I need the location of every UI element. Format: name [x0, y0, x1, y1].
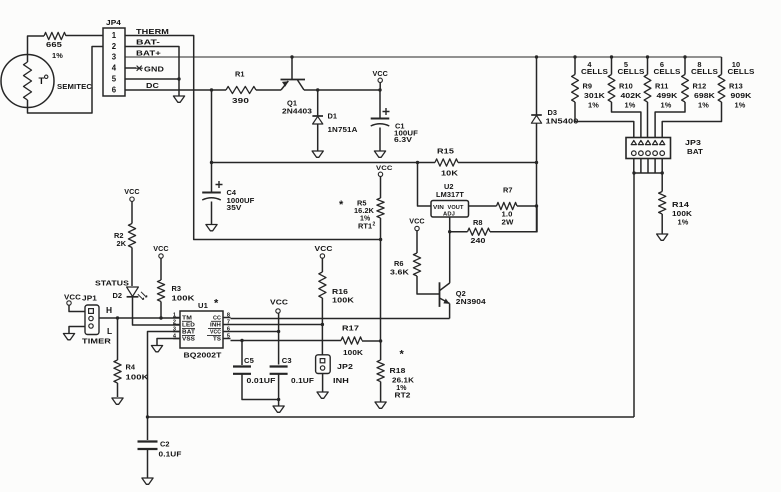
svg-text:2N4403: 2N4403 [282, 107, 312, 116]
svg-text:5: 5 [227, 333, 230, 339]
capacitor C2 0.1UF [138, 417, 182, 459]
svg-text:301K: 301K [584, 91, 606, 100]
resistor R2 2K [114, 201, 136, 247]
svg-text:R8: R8 [473, 218, 483, 227]
power VCC (R3 top) [153, 244, 168, 258]
power VCC (U1 VCC pin) [270, 298, 289, 314]
svg-text:VCC: VCC [64, 293, 81, 302]
svg-text:CC: CC [213, 316, 221, 322]
svg-text:16.2K: 16.2K [354, 206, 375, 215]
svg-text:*: * [214, 298, 219, 310]
resistor R10 402K 1% (5 cells) [608, 55, 645, 109]
wire bottom rail (BAT sense) [146, 415, 634, 418]
wire R11 to JP3 pin3 [647, 102, 649, 138]
thermistor T SEMITEC temperature sensor [1, 55, 92, 108]
svg-text:JP3: JP3 [685, 138, 701, 147]
wire R1 to Q1 emitter [256, 89, 281, 91]
svg-text:0.1UF: 0.1UF [291, 376, 314, 385]
wire U2 VOUT to R7 [469, 205, 497, 207]
wire Q1 collector to VCC node [304, 88, 382, 91]
connector JP4 [103, 18, 125, 96]
ground at JP4 BAT- [173, 96, 184, 102]
wire BAT- net (JP4 pin2 to ground) [125, 38, 179, 97]
svg-text:LM317T: LM317T [436, 190, 464, 199]
resistor R3 100K [157, 258, 195, 302]
svg-text:0.01UF: 0.01UF [247, 376, 276, 385]
svg-text:6: 6 [112, 86, 117, 95]
svg-text:6: 6 [227, 326, 230, 332]
resistor R4 100K [114, 318, 149, 383]
wire VCC drop to C3 [278, 313, 280, 364]
svg-text:2K: 2K [117, 239, 127, 248]
resistor R11 499K 1% (6 cells) [644, 55, 681, 109]
wire JP3 to bottom rail (right vertical) [633, 173, 635, 417]
wire DC to C4 and VIN rail [210, 88, 435, 164]
svg-text:1%: 1% [735, 101, 746, 110]
svg-text:698K: 698K [694, 91, 716, 100]
svg-text:2N3904: 2N3904 [456, 297, 487, 306]
power VCC (R2 top) [124, 187, 139, 201]
svg-text:L: L [107, 326, 112, 336]
svg-text:1%: 1% [52, 51, 63, 60]
svg-text:INH: INH [210, 323, 221, 329]
wire U1 VSS to ground [157, 339, 180, 346]
svg-text:VOUT: VOUT [448, 205, 464, 211]
svg-text:ADJ: ADJ [443, 212, 455, 218]
wire C5 bottom to ground run [242, 374, 280, 401]
connector JP3 BAT [626, 138, 703, 174]
svg-text:SEMITEC: SEMITEC [57, 82, 92, 91]
wire R12 to JP3 pin4 [655, 102, 685, 138]
svg-text:THERM: THERM [136, 27, 169, 36]
svg-text:BAT-: BAT- [136, 38, 160, 47]
wire CC line (U1 pin8 to Q2 emitter) [231, 318, 450, 320]
svg-text:665: 665 [46, 40, 62, 49]
wire INH to JP2 [321, 325, 323, 355]
svg-text:*: * [400, 349, 405, 361]
wire R10 to JP3 pin2 [612, 102, 641, 138]
svg-text:VCC: VCC [124, 187, 139, 196]
svg-text:INH: INH [333, 376, 349, 385]
svg-text:7: 7 [227, 319, 230, 325]
wire R3 to TM line [159, 302, 162, 320]
diode D3 1N5400 [531, 55, 578, 231]
LED D2 STATUS [95, 279, 147, 301]
svg-text:1%: 1% [678, 218, 689, 227]
resistor R15 10K [435, 147, 458, 178]
svg-text:499K: 499K [657, 91, 679, 100]
svg-text:VCC: VCC [409, 217, 424, 226]
svg-text:R9: R9 [583, 82, 593, 91]
svg-text:R11: R11 [655, 82, 668, 91]
resistor R18 26.1K 1% RT2 [377, 341, 415, 402]
wire JP3 bottom bus [632, 171, 664, 174]
ground below C1 [374, 151, 385, 157]
ground below R4 [112, 398, 123, 404]
ground at JP1 [63, 334, 74, 340]
svg-text:VSS: VSS [182, 337, 195, 343]
capacitor C3 0.1UF [270, 356, 315, 385]
svg-text:BAT+: BAT+ [136, 49, 162, 58]
wire thermistor bottom to JP4 pin2 [28, 47, 104, 114]
ground below C3/C5 [273, 406, 284, 412]
svg-text:BAT: BAT [687, 147, 703, 156]
svg-text:5: 5 [624, 60, 628, 69]
svg-text:6: 6 [660, 60, 664, 69]
connector JP2 INH [316, 355, 353, 385]
svg-text:1%: 1% [698, 101, 709, 110]
svg-text:1%: 1% [625, 101, 636, 110]
power VCC (R6 top) [409, 217, 424, 231]
wire U1 BAT pin down to bottom rail [148, 332, 181, 418]
ground at U1 VSS [151, 346, 162, 352]
svg-text:BQ2002T: BQ2002T [184, 351, 222, 360]
wire TS line (U1 pin5 to R17) [231, 339, 342, 342]
resistor R17 100K [341, 324, 381, 358]
svg-text:1: 1 [173, 312, 176, 318]
svg-text:VCC: VCC [210, 330, 221, 336]
svg-text:402K: 402K [621, 91, 643, 100]
svg-text:1%: 1% [588, 101, 599, 110]
wire R15 to D3 anode node [458, 161, 538, 164]
svg-text:R10: R10 [619, 82, 633, 91]
wire C2 to ground [147, 449, 149, 478]
wire TM line (JP1 pin2 to U1 TM) [99, 316, 180, 319]
svg-text:CELLS: CELLS [654, 69, 681, 76]
svg-text:1N751A: 1N751A [328, 125, 359, 134]
svg-text:TM: TM [182, 316, 193, 322]
transistor Q2 2N3904 (NPN) [440, 282, 487, 307]
svg-text:100K: 100K [332, 296, 355, 305]
svg-text:1: 1 [112, 31, 117, 40]
svg-text:STATUS: STATUS [95, 279, 129, 288]
resistor R5 16.2K 1% RT1 [339, 177, 384, 231]
svg-text:8: 8 [227, 312, 230, 318]
svg-text:VCC: VCC [153, 244, 168, 253]
svg-text:R4: R4 [126, 363, 136, 372]
wire VIN drop to U2 [418, 163, 432, 207]
svg-text:CELLS: CELLS [581, 69, 608, 76]
svg-text:D2: D2 [113, 291, 123, 300]
svg-text:909K: 909K [731, 91, 753, 100]
ground below C4 [206, 225, 217, 231]
svg-text:VCC: VCC [270, 298, 289, 307]
svg-text:TIMER: TIMER [82, 337, 111, 346]
power VCC (R5 top) [376, 165, 393, 177]
wire THERM net (JP4 pin1 down to TS node) [125, 27, 381, 240]
svg-text:390: 390 [232, 96, 249, 105]
svg-text:R1: R1 [235, 70, 245, 79]
svg-text:100K: 100K [126, 373, 150, 382]
wire Q1 base to BAT+ rail [290, 55, 293, 79]
svg-text:10K: 10K [441, 169, 458, 178]
wire JP2 to ground [322, 374, 324, 392]
svg-text:LED: LED [182, 323, 195, 329]
svg-text:4: 4 [112, 64, 117, 73]
svg-text:240: 240 [471, 236, 486, 245]
resistor R1 390 [226, 70, 256, 106]
svg-text:D1: D1 [328, 112, 338, 121]
wire R5 bottom to TS node (vertical) [379, 218, 382, 343]
svg-text:0.1UF: 0.1UF [159, 450, 182, 459]
svg-text:35V: 35V [227, 203, 242, 212]
svg-text:R3: R3 [172, 284, 182, 293]
svg-text:R12: R12 [693, 82, 707, 91]
wire thermistor top to resistor 665 [28, 36, 45, 55]
svg-text:1%: 1% [661, 101, 672, 110]
svg-text:TS: TS [213, 337, 221, 343]
IC U1 BQ2002T [173, 298, 231, 360]
svg-text:RT2: RT2 [395, 391, 411, 400]
wire D2 cathode to U1 LED pin [133, 297, 181, 325]
svg-text:1N5400: 1N5400 [546, 117, 579, 126]
wire R7 to D3 anode vertical [517, 204, 538, 207]
svg-text:100K: 100K [343, 348, 363, 357]
svg-text:R17: R17 [342, 324, 359, 333]
svg-text:4: 4 [587, 60, 592, 69]
svg-text:8: 8 [697, 60, 701, 69]
svg-text:VCC: VCC [372, 69, 387, 78]
wire 665 to JP4 pin1 [66, 35, 103, 37]
wire Q2 emitter to CC line [449, 304, 451, 319]
zener diode D1 1N751A [312, 90, 358, 151]
wire R6 to Q2 base [417, 276, 440, 294]
wire JP4 pin5 to ground junction [125, 77, 181, 80]
capacitor C1 100UF 6.3V [371, 90, 419, 151]
svg-text:VCC: VCC [376, 165, 393, 172]
svg-text:R15: R15 [437, 147, 455, 156]
svg-text:2: 2 [373, 222, 376, 228]
svg-text:VCC: VCC [315, 244, 334, 253]
svg-text:JP4: JP4 [106, 18, 122, 27]
wire R2 to LED D2 [131, 248, 133, 287]
svg-text:GND: GND [144, 65, 164, 74]
resistor R16 100K [315, 244, 355, 325]
ground below R14 [657, 234, 668, 240]
transistor Q1 2N4403 (PNP pass) [281, 80, 313, 116]
capacitor C4 1000UF 35V [202, 163, 255, 225]
resistor R14 100K 1% [659, 173, 693, 234]
svg-text:2: 2 [112, 42, 117, 51]
svg-text:*: * [339, 199, 344, 211]
svg-text:DC: DC [146, 81, 159, 90]
svg-text:JP1: JP1 [82, 296, 97, 303]
svg-text:3: 3 [112, 53, 117, 62]
wire C3 bottom to ground [278, 374, 280, 406]
svg-text:26.1K: 26.1K [392, 375, 415, 384]
svg-text:JP2: JP2 [337, 362, 353, 371]
resistor R6 3.6K [390, 231, 421, 277]
wire R9 to JP3 pin1 [575, 102, 634, 138]
resistor R8 240 [450, 218, 490, 245]
svg-text:R18: R18 [390, 366, 406, 375]
resistor R9 301K 1% (4 cells) [572, 55, 609, 109]
svg-text:VIN: VIN [433, 205, 444, 211]
svg-text:R14: R14 [672, 200, 690, 209]
svg-text:H: H [106, 305, 112, 315]
wire JP1 pin3 to ground [69, 327, 85, 334]
svg-text:5: 5 [112, 75, 117, 84]
resistor R13 909K 1% (10 cells) [718, 57, 755, 110]
svg-text:CELLS: CELLS [691, 69, 718, 76]
svg-text:2: 2 [173, 319, 176, 325]
resistor 665 1% [44, 32, 66, 60]
power VCC (main, at Q1 collector) [372, 69, 387, 90]
svg-text:100K: 100K [172, 294, 196, 303]
svg-text:U1: U1 [198, 301, 209, 310]
no-connect GND stub (JP4 pin4) [125, 65, 164, 74]
wire R13 to JP3 pin5 [662, 102, 721, 138]
connector JP1 TIMER [82, 296, 112, 346]
svg-text:1.0: 1.0 [502, 211, 513, 218]
svg-text:R7: R7 [503, 186, 513, 195]
svg-text:CELLS: CELLS [618, 69, 645, 76]
ground below JP2 [317, 392, 328, 398]
svg-text:100K: 100K [672, 209, 693, 218]
svg-text:10: 10 [732, 60, 740, 69]
wire DC net (JP4 pin6 to R1) [125, 81, 226, 90]
wire R4 to ground [117, 383, 119, 397]
wire INH line (U1 pin7 to R16/JP2) [231, 323, 325, 326]
ground below C2 [142, 478, 153, 484]
svg-text:BAT: BAT [182, 330, 196, 336]
ground below R18 [375, 402, 386, 408]
svg-text:T: T [39, 76, 45, 87]
resistor R7 1.0 2W [497, 186, 518, 227]
capacitor C5 0.01UF [233, 341, 276, 386]
svg-text:RT1: RT1 [358, 222, 372, 231]
power VCC (JP1) [64, 293, 85, 312]
svg-text:CELLS: CELLS [728, 69, 755, 76]
svg-text:C2: C2 [160, 440, 170, 449]
resistor R12 698K 1% (8 cells) [682, 55, 719, 109]
op-amp regulator U2 LM317T [431, 182, 469, 218]
svg-text:C5: C5 [244, 356, 255, 365]
wire U2 ADJ down to Q2 collector [448, 217, 451, 283]
svg-text:6.3V: 6.3V [394, 135, 412, 144]
svg-text:2W: 2W [502, 220, 514, 227]
wire VCC line (U1 pin6 to VCC drop) [231, 330, 281, 333]
wire BAT+ rail (JP4 pin3 across top) [125, 49, 722, 58]
wire R8 to D3 anode vertical [490, 206, 537, 232]
svg-text:R13: R13 [729, 82, 743, 91]
svg-text:3.6K: 3.6K [390, 268, 410, 277]
svg-text:C3: C3 [282, 356, 292, 365]
ground below D1 [312, 151, 323, 157]
